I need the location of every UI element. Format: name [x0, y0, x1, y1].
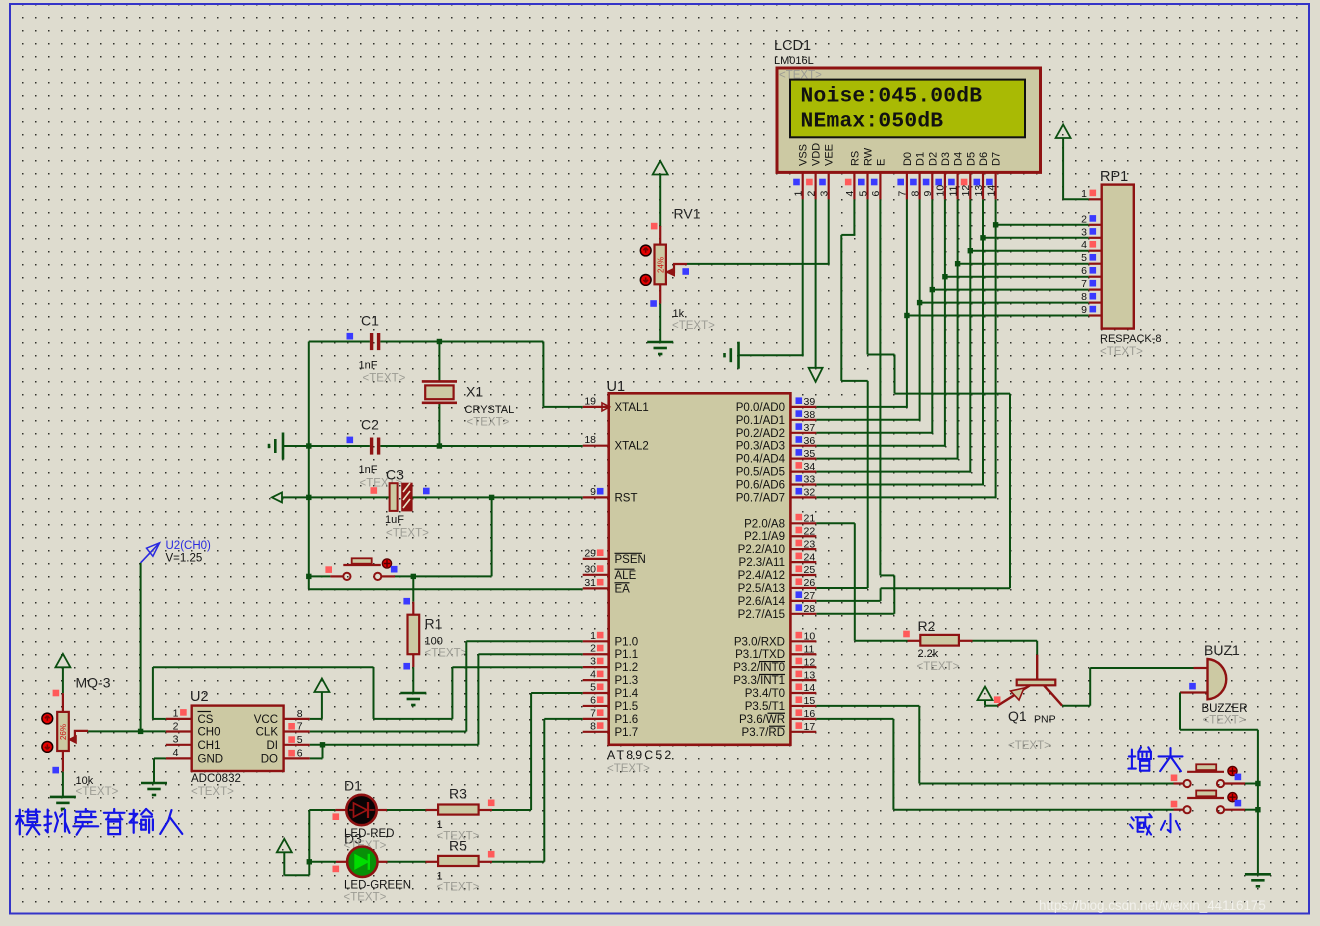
svg-text:35: 35	[804, 448, 816, 460]
svg-text:P1.7: P1.7	[615, 727, 639, 739]
power terminal at U2 VCC	[314, 679, 329, 693]
svg-text:1nF: 1nF	[359, 464, 378, 476]
svg-text:P3.0/RXD: P3.0/RXD	[734, 636, 785, 648]
button A label (Chinese) increase	[1131, 750, 1133, 769]
svg-text:24: 24	[804, 551, 816, 563]
svg-text:8: 8	[1081, 291, 1087, 303]
RV1 decrement button	[640, 275, 651, 286]
svg-text:P1.3: P1.3	[615, 675, 639, 687]
svg-text:D4: D4	[953, 152, 965, 166]
wire LCD VEE pin3 to RV1 wiper	[687, 199, 830, 264]
LED D1 LED-RED	[333, 778, 395, 853]
wire C2 XTAL2 row	[283, 445, 583, 447]
power terminal at Q1 emitter	[978, 687, 993, 701]
svg-text:Noise:045.00dB: Noise:045.00dB	[801, 85, 983, 109]
buzzer BUZ1	[1180, 642, 1248, 727]
svg-text:RST: RST	[615, 492, 638, 504]
wire XTAL1 to C1 row	[543, 342, 582, 407]
svg-text:11: 11	[804, 643, 815, 655]
wire U1 P3.5 to button A	[816, 706, 1173, 784]
svg-text:1nF: 1nF	[359, 360, 378, 372]
resistor R1 100	[403, 576, 467, 693]
svg-text:PNP: PNP	[1034, 714, 1056, 726]
svg-text:C3: C3	[386, 467, 404, 483]
svg-text:8: 8	[590, 720, 596, 732]
wire LCD RW pin5 to U1 P2.6	[816, 199, 1010, 601]
svg-text:1: 1	[437, 819, 443, 831]
input terminal arrow at C3 row	[272, 492, 282, 502]
svg-text:<TEXT>: <TEXT>	[437, 882, 480, 894]
svg-text:36: 36	[804, 435, 816, 447]
svg-text:<TEXT>: <TEXT>	[363, 373, 406, 385]
svg-text:P1.4: P1.4	[615, 688, 639, 700]
svg-text:DI: DI	[267, 740, 279, 752]
svg-text:<TEXT>: <TEXT>	[1008, 740, 1051, 752]
svg-text:8: 8	[297, 708, 303, 720]
svg-text:<TEXT>: <TEXT>	[1100, 346, 1143, 358]
svg-text:13: 13	[804, 669, 816, 681]
svg-text:2: 2	[590, 643, 596, 655]
svg-text:14: 14	[985, 185, 997, 197]
svg-text:RS: RS	[849, 151, 861, 166]
svg-text:P2.5/A13: P2.5/A13	[738, 583, 785, 595]
resistor R2 2.2k	[903, 618, 972, 673]
svg-text:33: 33	[804, 474, 816, 486]
svg-text:2: 2	[173, 720, 179, 732]
svg-text:30: 30	[584, 563, 596, 575]
svg-text:4: 4	[1081, 239, 1087, 251]
wire Q1 collector to buzzer	[1062, 668, 1193, 706]
LCD1 label	[774, 38, 814, 67]
U1 right pins P0 P2 P3	[733, 396, 816, 739]
svg-text:3: 3	[173, 734, 179, 746]
push button B (decrease)	[1171, 791, 1258, 814]
svg-text:29: 29	[584, 547, 596, 559]
svg-text:10: 10	[935, 185, 947, 197]
svg-text:14: 14	[804, 682, 816, 694]
junction button to R1	[411, 574, 416, 579]
ADC U2 ADC0832 body	[192, 706, 284, 771]
svg-text:D1: D1	[915, 152, 927, 166]
junction at button row	[306, 574, 311, 579]
capacitor C1	[347, 313, 406, 385]
sensor MQ-3 10k	[52, 675, 118, 799]
svg-text:1: 1	[1081, 188, 1087, 200]
svg-text:EA: EA	[615, 583, 631, 595]
svg-text:CH1: CH1	[198, 740, 221, 752]
svg-text:DO: DO	[261, 754, 278, 766]
junction at C3 row	[306, 495, 311, 500]
svg-text:3: 3	[819, 191, 831, 197]
svg-text:P0.7/AD7: P0.7/AD7	[736, 492, 785, 504]
svg-text:CLK: CLK	[256, 727, 279, 739]
wire LCD D0 to U1 P0.0 and RP1 pin9	[816, 199, 1088, 408]
svg-text:VDD: VDD	[811, 143, 823, 166]
svg-text:P3.1/TXD: P3.1/TXD	[735, 649, 785, 661]
power terminal for LEDs	[277, 839, 292, 853]
svg-text:P0.3/AD3: P0.3/AD3	[736, 441, 785, 453]
svg-text:22: 22	[804, 525, 816, 537]
resistor R3 1ohm	[426, 786, 495, 843]
LCD1 pins 1-14 with numbers and names	[793, 143, 1003, 200]
svg-text:P2.4/A12: P2.4/A12	[738, 570, 785, 582]
svg-text:19: 19	[584, 395, 596, 407]
svg-text:8: 8	[909, 191, 921, 197]
ground at LCD VSS	[737, 342, 740, 369]
svg-text:C2: C2	[361, 417, 379, 433]
wire C1 row	[309, 341, 544, 343]
svg-text:4: 4	[590, 669, 596, 681]
svg-text:1uF: 1uF	[385, 514, 404, 526]
svg-text:5: 5	[1081, 252, 1087, 264]
wire R3 to U1 P1.4	[492, 693, 583, 810]
ground below MQ-3	[50, 796, 76, 799]
svg-text:D0: D0	[902, 152, 914, 166]
svg-text:2: 2	[805, 191, 817, 197]
svg-text:6: 6	[870, 191, 882, 197]
svg-text:V=1.25: V=1.25	[166, 553, 203, 565]
svg-text:2.2k: 2.2k	[918, 648, 939, 660]
LCD1 screen	[790, 80, 1025, 138]
wire D1 cathode to R3	[377, 809, 426, 811]
svg-text:9: 9	[590, 486, 596, 498]
svg-text:P3.4/T0: P3.4/T0	[745, 688, 785, 700]
ground below R1	[400, 692, 426, 695]
svg-text:6: 6	[297, 748, 303, 760]
RP1 pins 1-9	[1081, 188, 1102, 316]
svg-text:CH0: CH0	[198, 727, 221, 739]
svg-text:<TEXT>: <TEXT>	[425, 648, 468, 660]
svg-text:CRYSTAL: CRYSTAL	[465, 404, 515, 416]
svg-text:<TEXT>: <TEXT>	[76, 786, 119, 798]
svg-text:LM016L: LM016L	[774, 55, 814, 67]
svg-text:9: 9	[1081, 304, 1087, 316]
svg-text:NEmax:050dB: NEmax:050dB	[801, 110, 944, 134]
svg-text:1: 1	[590, 630, 596, 642]
capacitor C3 1uF	[371, 467, 430, 540]
svg-text:26: 26	[804, 577, 816, 589]
svg-text:BUZ1: BUZ1	[1204, 642, 1240, 658]
wire to D1 anode	[309, 809, 346, 811]
svg-text:BUZZER: BUZZER	[1202, 703, 1248, 715]
wire U2 DO to DI	[310, 745, 323, 759]
wire MQ-3 wiper to U2 CH0	[88, 730, 166, 732]
wire MQ-3 top	[62, 667, 64, 693]
button B label (Chinese) decrease	[1131, 817, 1133, 820]
junction crystal bottom	[437, 443, 442, 448]
junction button A net	[1255, 781, 1260, 786]
svg-text:Q1: Q1	[1008, 708, 1027, 724]
power terminal at LCD VDD pin2	[809, 199, 823, 381]
svg-text:XTAL2: XTAL2	[615, 441, 649, 453]
wire U2 GND to ground	[154, 758, 166, 783]
svg-text:<TEXT>: <TEXT>	[607, 763, 650, 775]
LCD1 body LM016L	[777, 68, 1041, 172]
svg-text:P0.2/AD2: P0.2/AD2	[736, 428, 785, 440]
svg-text:C1: C1	[361, 313, 379, 329]
ground below U2	[141, 782, 167, 785]
svg-text:D2: D2	[927, 152, 939, 166]
svg-text:18: 18	[584, 434, 596, 446]
svg-text:VCC: VCC	[254, 714, 278, 726]
svg-text:P0.5/AD5: P0.5/AD5	[736, 467, 785, 479]
svg-text:26%: 26%	[59, 724, 68, 740]
svg-text:P2.3/A11: P2.3/A11	[739, 557, 785, 569]
svg-text:P1.0: P1.0	[615, 636, 639, 648]
svg-text:https://blog.csdn.net/weixin_4: https://blog.csdn.net/weixin_44116175	[1039, 898, 1266, 913]
svg-text:MQ-3: MQ-3	[76, 675, 111, 691]
svg-text:RESPACK-8: RESPACK-8	[1100, 333, 1162, 345]
svg-text:39: 39	[804, 396, 816, 408]
svg-text:P1.2: P1.2	[615, 662, 639, 674]
crystal X1	[422, 381, 514, 428]
svg-text:D3: D3	[940, 152, 952, 166]
wire U1 P3.6 to button B	[816, 719, 1173, 810]
svg-text:P3.6/WR: P3.6/WR	[739, 714, 785, 726]
svg-text:7: 7	[590, 707, 596, 719]
push button A (increase)	[1171, 764, 1258, 787]
svg-text:P2.6/A14: P2.6/A14	[738, 596, 786, 608]
net label (Chinese) analog sound input	[19, 810, 21, 835]
svg-text:1: 1	[793, 191, 805, 197]
svg-text:13: 13	[973, 185, 985, 197]
wire LCD D1 to U1 P0.1 and RP1 pin8	[816, 199, 1088, 420]
svg-text:D5: D5	[965, 152, 977, 166]
svg-text:11: 11	[947, 185, 959, 196]
svg-text:PSEN: PSEN	[615, 554, 646, 566]
wire U2 CLK to U1 P1.0	[310, 641, 583, 731]
svg-text:GND: GND	[198, 754, 224, 766]
svg-text:3: 3	[1081, 226, 1087, 238]
svg-text:32: 32	[804, 487, 816, 499]
wire buzzer return to buttons	[1180, 693, 1258, 875]
wire U2 DI to U1 P1.1	[310, 654, 583, 745]
svg-text:23: 23	[804, 538, 816, 550]
wire LCD D3 to U1 P0.3 and RP1 pin6	[816, 199, 1088, 446]
junction RST to button branch	[489, 495, 494, 500]
svg-text:4: 4	[173, 747, 179, 759]
wire button row	[309, 575, 492, 577]
svg-text:D6: D6	[978, 152, 990, 166]
svg-text:3: 3	[590, 656, 596, 668]
ground at C2 row	[282, 433, 285, 460]
svg-text:34: 34	[804, 461, 816, 473]
wire RST branch down to button	[491, 497, 493, 576]
svg-text:P3.2/INT0: P3.2/INT0	[733, 662, 785, 674]
svg-text:5: 5	[297, 734, 303, 746]
capacitor C2	[347, 417, 403, 490]
svg-text:LCD1: LCD1	[774, 38, 811, 54]
svg-text:4: 4	[844, 191, 856, 197]
svg-text:15: 15	[804, 695, 816, 707]
svg-text:P3.3/INT1: P3.3/INT1	[733, 675, 785, 687]
svg-text:7: 7	[297, 721, 303, 733]
junction probe tap	[138, 729, 143, 734]
svg-text:5: 5	[590, 682, 596, 694]
svg-text:7: 7	[1081, 278, 1087, 290]
svg-text:U2(CH0): U2(CH0)	[166, 540, 212, 552]
svg-text:21: 21	[804, 513, 816, 525]
svg-text:AT89C52: AT89C52	[607, 748, 673, 762]
svg-text:R5: R5	[449, 838, 467, 854]
voltage probe U2(CH0)	[141, 540, 212, 565]
wire LCD RS pin4 to U1 P2.5	[816, 199, 867, 588]
wire RV1 top	[659, 175, 661, 227]
svg-text:P2.0/A8: P2.0/A8	[744, 518, 785, 530]
ground below RV1	[647, 341, 673, 344]
junction LED branch	[307, 859, 312, 864]
svg-text:1: 1	[173, 708, 179, 720]
svg-text:P3.5/T1: P3.5/T1	[745, 701, 785, 713]
svg-text:28: 28	[804, 603, 816, 615]
svg-text:<TEXT>: <TEXT>	[191, 786, 234, 798]
svg-text:P0.0/AD0: P0.0/AD0	[736, 402, 785, 414]
svg-text:RW: RW	[863, 147, 875, 166]
wire to D3 anode	[309, 861, 347, 863]
svg-text:17: 17	[804, 721, 816, 733]
vertical bus C1/C2/C3/EA	[308, 342, 310, 590]
wire LCD VSS pin1	[739, 199, 804, 355]
svg-text:5: 5	[857, 191, 869, 197]
svg-text:ALE: ALE	[615, 570, 637, 582]
svg-text:P1.5: P1.5	[615, 701, 639, 713]
svg-text:P2.2/A10: P2.2/A10	[738, 544, 785, 556]
power terminal above RV1	[653, 161, 668, 175]
wire probe to CH0 net	[140, 563, 142, 732]
svg-text:U2: U2	[190, 689, 209, 705]
svg-text:6: 6	[1081, 265, 1087, 277]
wire U2 VCC to power	[310, 692, 322, 719]
LED D3 LED-GREEN	[333, 847, 412, 904]
svg-text:12: 12	[804, 656, 816, 668]
svg-text:12: 12	[960, 185, 972, 197]
svg-text:P2.7/A15: P2.7/A15	[738, 609, 785, 621]
svg-text:2: 2	[1081, 213, 1087, 225]
svg-text:E: E	[875, 159, 887, 166]
wire LCD D2 to U1 P0.2 and RP1 pin7	[816, 199, 1088, 433]
svg-text:P0.1/AD1: P0.1/AD1	[736, 415, 785, 427]
U2 pins	[166, 708, 310, 766]
MQ-3 decrement button	[42, 742, 53, 753]
junction DI-DO tie	[320, 742, 325, 747]
svg-text:R1: R1	[425, 616, 443, 632]
svg-text:X1: X1	[466, 384, 483, 400]
svg-text:<TEXT>: <TEXT>	[386, 528, 429, 540]
svg-text:9: 9	[922, 191, 934, 197]
wire EA row	[309, 588, 583, 590]
svg-text:CS: CS	[198, 714, 214, 726]
svg-text:16: 16	[804, 708, 816, 720]
wire RP1 pin1 to power	[1063, 138, 1089, 199]
wire LCD D7 to U1 P0.7 and RP1 pin2	[816, 199, 1088, 498]
svg-text:38: 38	[804, 409, 816, 421]
svg-text:VSS: VSS	[798, 144, 810, 166]
svg-text:D1: D1	[344, 778, 362, 794]
resistor R5 1ohm	[426, 838, 495, 894]
wire LED supply	[284, 810, 309, 875]
svg-text:P3.7/RD: P3.7/RD	[742, 727, 785, 739]
svg-text:27: 27	[804, 590, 816, 602]
svg-text:31: 31	[584, 577, 596, 589]
wire U1 P2.0 to R2	[816, 523, 907, 641]
crystal X1 leads	[438, 342, 440, 447]
potentiometer RV1 1k	[650, 206, 715, 343]
svg-text:6: 6	[590, 694, 596, 706]
transistor Q1 PNP	[994, 655, 1062, 752]
svg-text:P2.1/A9: P2.1/A9	[744, 531, 785, 543]
junction at C2 row	[306, 443, 311, 448]
svg-text:<TEXT>: <TEXT>	[917, 661, 960, 673]
wire LCD D4 to U1 P0.4 and RP1 pin5	[816, 199, 1088, 459]
wire LCD E pin6 to U1 P2.7	[816, 199, 894, 613]
wire D3 cathode to R5	[377, 861, 425, 863]
junction button B net	[1255, 807, 1260, 812]
wire LCD D6 to U1 P0.6 and RP1 pin3	[816, 199, 1088, 485]
wire LCD D5 to U1 P0.5 and RP1 pin4	[816, 199, 1088, 472]
svg-text:<TEXT>: <TEXT>	[467, 417, 510, 429]
svg-text:P1.6: P1.6	[615, 714, 639, 726]
svg-text:ADC0832: ADC0832	[191, 773, 241, 785]
wire Q1 emitter to power	[985, 700, 998, 706]
svg-text:LED-GREEN: LED-GREEN	[344, 880, 411, 892]
svg-text:XTAL1: XTAL1	[615, 402, 649, 414]
power terminal above MQ-3	[55, 654, 70, 668]
ground below buttons	[1245, 873, 1271, 876]
svg-text:25: 25	[804, 564, 816, 576]
svg-text:RV1: RV1	[674, 206, 701, 222]
resistor pack RP1 body	[1102, 185, 1134, 329]
MQ-3 increment button	[42, 713, 53, 724]
power terminal above RP1	[1056, 125, 1071, 139]
wire U2 CS to U1 P1.2	[153, 667, 583, 719]
svg-text:VEE: VEE	[824, 144, 836, 166]
svg-text:R3: R3	[449, 786, 467, 802]
junction crystal top	[437, 339, 442, 344]
microcontroller U1 AT89C52 body	[609, 393, 791, 745]
svg-text:R2: R2	[918, 618, 936, 634]
wire R5 to U1 P1.6	[492, 719, 583, 862]
svg-text:P0.4/AD4: P0.4/AD4	[736, 454, 786, 466]
svg-text:100: 100	[425, 636, 443, 648]
svg-text:1k: 1k	[673, 308, 685, 320]
svg-text:D7: D7	[991, 152, 1003, 166]
U1 left pins XTAL1 XTAL2 RST PSEN ALE EA P1.0-P1.7	[583, 395, 649, 738]
svg-text:24%: 24%	[657, 257, 666, 273]
svg-text:7: 7	[897, 191, 909, 197]
wire RST row	[282, 496, 583, 498]
svg-text:<TEXT>: <TEXT>	[672, 320, 715, 332]
svg-text:10: 10	[804, 631, 816, 643]
svg-text:P1.1: P1.1	[615, 649, 639, 661]
wire R2 to Q1 base	[973, 641, 1038, 656]
svg-text:<TEXT>: <TEXT>	[1203, 715, 1246, 727]
svg-text:P0.6/AD6: P0.6/AD6	[736, 480, 785, 492]
RV1 increment button	[640, 245, 651, 256]
push button (reset)	[325, 558, 397, 580]
svg-text:RP1: RP1	[1100, 169, 1128, 185]
svg-text:<TEXT>: <TEXT>	[344, 892, 387, 904]
svg-text:37: 37	[804, 422, 816, 434]
